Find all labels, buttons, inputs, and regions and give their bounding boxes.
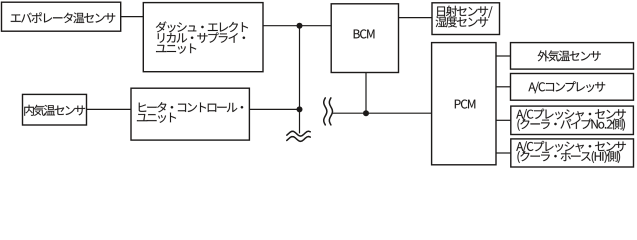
box dash electrical supply unit (143, 3, 263, 72)
wire inside-air sensor to heater unit (87, 108, 131, 110)
box evaporator temperature sensor (2, 2, 121, 31)
box inside air temperature sensor (23, 94, 87, 125)
wire PCM to pressure sensor pipe (496, 119, 511, 121)
wire heater unit to vertical bus (249, 108, 299, 110)
box A/C compressor (511, 74, 634, 101)
wire from break to PCM (333, 112, 432, 114)
wire vertical bus from node A down to break (299, 26, 301, 134)
box solar/humidity sensor (432, 3, 500, 35)
box BCM (331, 4, 398, 73)
box PCM (432, 43, 496, 165)
node B junction dot (297, 106, 303, 112)
node A junction dot (297, 23, 303, 29)
box A/C pressure sensor (cooler hose (HI) side) (511, 139, 634, 167)
break symbol (off-page) below vertical bus (287, 131, 311, 141)
box heater control unit (131, 88, 249, 140)
wire PCM to A/C compressor (496, 86, 511, 88)
wire evaporator sensor to dash unit (121, 16, 144, 18)
wire dash unit to BCM (263, 25, 331, 27)
break symbol (off-page) left of PCM wire (324, 98, 333, 125)
wire BCM bottom down to junction (365, 73, 367, 114)
box A/C pressure sensor (cooler pipe No.2 side) (511, 106, 634, 134)
wire PCM to outside air temp sensor (496, 55, 511, 57)
node C junction dot (363, 110, 369, 116)
wire BCM to solar/humidity sensor (399, 17, 433, 19)
wire PCM to pressure sensor hose (496, 152, 511, 154)
box outside air temperature sensor (511, 43, 634, 70)
